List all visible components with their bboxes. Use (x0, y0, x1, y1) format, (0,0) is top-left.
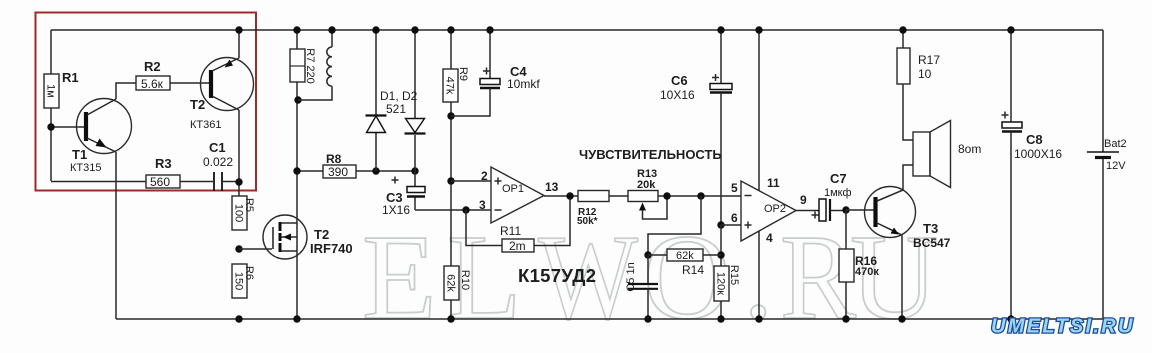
svg-text:BC547: BC547 (913, 236, 951, 250)
svg-text:R14: R14 (682, 263, 704, 277)
wire T1 emitter down (115, 152, 117, 319)
svg-text:6: 6 (731, 211, 738, 225)
potentiometer R13 (628, 168, 667, 219)
resistor R8 (323, 152, 356, 179)
node pin2 (447, 177, 454, 184)
svg-text:1м: 1м (45, 84, 57, 98)
svg-text:5: 5 (731, 181, 738, 195)
node R15 ground (717, 315, 724, 322)
inductor L1 (298, 30, 332, 100)
svg-text:R15: R15 (728, 265, 740, 285)
svg-text:T2: T2 (314, 227, 329, 242)
transistor T2 IRF740 mosfet (263, 215, 353, 259)
svg-text:R2: R2 (144, 59, 161, 74)
svg-text:10: 10 (918, 67, 932, 81)
wire R12 to R13 (609, 195, 628, 197)
wire pin2 (451, 180, 491, 182)
svg-text:120к: 120к (715, 272, 727, 295)
svg-text:OP1: OP1 (502, 183, 524, 195)
svg-text:R3: R3 (155, 156, 172, 171)
svg-text:R6: R6 (243, 266, 255, 280)
wire C3 to pin3 (415, 209, 491, 211)
svg-text:К157УД2: К157УД2 (518, 265, 596, 286)
svg-text:Bat2: Bat2 (1104, 138, 1127, 150)
svg-text:390: 390 (328, 165, 348, 179)
svg-text:1X16: 1X16 (382, 203, 410, 217)
svg-text:150: 150 (233, 272, 245, 290)
svg-text:62k: 62k (445, 274, 457, 292)
diode D1 (366, 30, 387, 171)
svg-text:2m: 2m (509, 239, 526, 253)
svg-text:OP2: OP2 (764, 203, 786, 215)
resistor R1 (44, 70, 79, 108)
wire OP1 output (544, 195, 578, 197)
wire OP2 output (796, 210, 819, 212)
node D1 top rail (372, 26, 379, 33)
node T1 base (47, 123, 54, 130)
node C4 rail (486, 26, 493, 33)
node C7/R16/T3 (842, 206, 849, 213)
svg-text:1000X16: 1000X16 (1014, 147, 1062, 161)
svg-text:R11: R11 (500, 224, 521, 238)
node R8 left (293, 167, 300, 174)
node R17 rail (899, 26, 906, 33)
diode D2 (380, 30, 426, 171)
resistor R14 (648, 249, 721, 277)
node mosfet source ground (293, 315, 300, 322)
wire left branch R1 (50, 30, 52, 181)
node C6 rail (717, 26, 724, 33)
node L top rail (328, 26, 335, 33)
svg-text:R8: R8 (326, 152, 342, 166)
wire R2 to T2 base (170, 82, 209, 84)
svg-text:UMELTSI.RU: UMELTSI.RU (991, 316, 1135, 338)
svg-text:560: 560 (150, 175, 170, 189)
node D2 bottom (411, 167, 418, 174)
svg-text:100: 100 (233, 204, 245, 222)
wire T3 emitter ground (901, 235, 903, 319)
node R14 right (717, 251, 724, 258)
resistor R10 (444, 266, 471, 300)
node C8 ground (1007, 315, 1014, 322)
capacitor C1 (203, 140, 233, 191)
svg-text:R7 220: R7 220 (304, 48, 316, 83)
node C5 ground (644, 315, 651, 322)
svg-text:4: 4 (766, 231, 773, 245)
node R5/R6 gate (235, 245, 242, 252)
transistor T2 KT361 (190, 58, 254, 132)
svg-text:ЧУВСТВИТЕЛЬНОСТЬ: ЧУВСТВИТЕЛЬНОСТЬ (579, 147, 722, 162)
svg-text:20k: 20k (637, 179, 656, 191)
wire R7 top (296, 30, 298, 49)
transistor T3 BC547 (865, 187, 951, 251)
capacitor C5 (625, 255, 658, 319)
svg-text:13: 13 (545, 180, 559, 194)
resistor R6 (232, 264, 255, 298)
wire pin11 power (758, 30, 760, 191)
svg-text:КТ361: КТ361 (190, 119, 221, 131)
wire top rail (51, 29, 1103, 31)
svg-text:R17: R17 (918, 53, 940, 67)
capacitor C7 (812, 171, 852, 221)
resistor R11 (500, 224, 534, 253)
battery Bat2 (1087, 30, 1127, 319)
resistor R3 (146, 156, 180, 189)
node pin4 ground (755, 315, 762, 322)
node A pot output (697, 192, 704, 199)
wire mosfet drain-source column (296, 171, 298, 319)
svg-text:3: 3 (479, 198, 486, 212)
wire node A to R14 (648, 196, 701, 255)
node R16 ground (842, 315, 849, 322)
wire pin4 power (758, 231, 760, 319)
svg-text:R5: R5 (243, 198, 255, 212)
node output OP1 (566, 192, 573, 199)
node R14 left (644, 251, 651, 258)
svg-text:C8: C8 (1026, 132, 1043, 147)
wire T2 emitter up (238, 30, 240, 58)
svg-text:R1: R1 (62, 70, 79, 85)
svg-text:T3: T3 (923, 221, 938, 236)
wire R13 to OP2 pin5 (658, 195, 741, 197)
resistor R7 (290, 48, 316, 83)
wire feedback loop (466, 196, 570, 246)
highlight box (red) (36, 13, 257, 191)
wire bottom rail (116, 318, 1103, 320)
wire T3 collector up (903, 165, 913, 190)
svg-text:12V: 12V (1106, 160, 1126, 172)
umeltsi.ru logo (991, 316, 1135, 338)
op-amp OP2 (731, 176, 807, 245)
svg-text:50k*: 50k* (577, 216, 598, 227)
node R9 rail (447, 26, 454, 33)
capacitor C4 (451, 30, 540, 116)
svg-text:R10: R10 (459, 270, 471, 290)
node pin3 (462, 206, 469, 213)
svg-text:47k: 47k (444, 77, 456, 95)
svg-text:5.6к: 5.6к (141, 77, 164, 91)
node R10 ground (447, 315, 454, 322)
node R7 top rail (293, 26, 300, 33)
wire R17 to speaker (903, 84, 913, 140)
svg-text:R9: R9 (457, 67, 469, 81)
svg-text:10mkf: 10mkf (507, 77, 540, 91)
svg-text:8om: 8om (958, 142, 981, 156)
wire T3 base (846, 209, 874, 211)
node R13 right (663, 192, 670, 199)
node D1 bottom (372, 167, 379, 174)
node R6 ground (235, 315, 242, 322)
speaker 8om (913, 121, 981, 188)
svg-text:11: 11 (767, 176, 780, 190)
wire pin6 (721, 224, 741, 226)
wire R3/C1 row (51, 181, 239, 183)
node C1/R5 (235, 178, 242, 185)
wire R7 bottom (296, 82, 298, 171)
watermark ELWO.RU (362, 210, 938, 345)
svg-text:C7: C7 (830, 171, 847, 186)
node T2 emitter rail (235, 26, 242, 33)
wire T1 collector to R2 (116, 83, 136, 99)
wire T2 collector down (238, 110, 240, 196)
svg-text:T1: T1 (72, 147, 87, 162)
svg-text:IRF740: IRF740 (310, 241, 353, 256)
wire gate (239, 248, 272, 250)
op-amp OP1 (479, 167, 559, 223)
resistor R12 (577, 191, 609, 228)
resistor R16 (839, 210, 879, 319)
svg-text:D1, D2: D1, D2 (380, 89, 418, 103)
wire base T1 (51, 126, 84, 128)
node R7/L junction (294, 96, 301, 103)
svg-text:1мкф: 1мкф (824, 187, 852, 199)
wire R10 ground (450, 300, 452, 319)
svg-text:9: 9 (800, 193, 807, 207)
node D2 top rail (411, 26, 418, 33)
resistor R2 (136, 59, 170, 91)
svg-text:521: 521 (386, 102, 406, 116)
node pin6 (717, 221, 724, 228)
svg-text:C5 1n: C5 1n (625, 262, 637, 291)
resistor R5 (232, 196, 255, 230)
svg-text:C6: C6 (671, 73, 688, 88)
transistor T1 (70, 99, 132, 175)
svg-text:0.022: 0.022 (203, 155, 233, 169)
wire R8 row (297, 170, 415, 172)
capacitor C8 (1002, 30, 1063, 319)
resistor R9 (443, 67, 469, 102)
node C8 rail (1007, 26, 1014, 33)
node pin11 rail (755, 26, 762, 33)
wire R9 column (450, 30, 452, 266)
capacitor C6 (660, 30, 732, 225)
node T3 emitter ground (898, 315, 905, 322)
node R9/C4 (447, 112, 454, 119)
svg-text:КТ315: КТ315 (70, 162, 101, 174)
resistor R15 (714, 265, 740, 319)
wire pin6 node down (720, 225, 722, 266)
wire R17 top (902, 30, 904, 48)
svg-text:470к: 470к (855, 266, 879, 278)
resistor R17 (897, 48, 940, 84)
capacitor C3 (382, 171, 425, 217)
svg-text:62k: 62k (676, 250, 694, 262)
svg-text:T2: T2 (190, 97, 205, 112)
svg-text:2: 2 (481, 169, 488, 183)
svg-text:C1: C1 (209, 140, 226, 155)
svg-text:10X16: 10X16 (660, 88, 695, 102)
